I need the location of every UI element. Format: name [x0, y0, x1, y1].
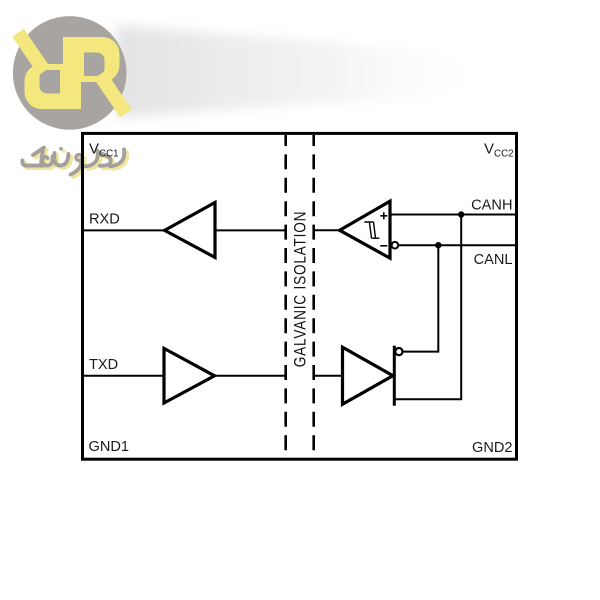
logo monogram letter R right	[63, 37, 122, 108]
receiver inverting bubble	[392, 242, 399, 249]
receiver minus input label	[380, 245, 387, 247]
driver U4 CAN output stage triangle	[343, 347, 394, 404]
IC package outline	[83, 133, 517, 459]
junction CANH	[458, 211, 464, 217]
receiver plus input label	[380, 212, 387, 219]
svg-text:CANL: CANL	[474, 252, 513, 268]
svg-text:CANH: CANH	[471, 198, 512, 214]
wire RXD barrier to receiver apex	[313, 229, 342, 231]
receiver comparator U3	[340, 201, 390, 258]
driver output bar	[393, 346, 396, 406]
buffer U2 TXD input buffer	[164, 348, 215, 403]
svg-text:RXD: RXD	[89, 212, 120, 228]
svg-text:TXD: TXD	[89, 357, 118, 373]
isolation barrier dashed line left	[284, 135, 287, 458]
logo monogram letter R left (rotated copy)	[22, 39, 81, 110]
wire CANL junction down to driver bubble output	[402, 245, 438, 351]
wire CANL	[399, 244, 516, 246]
isolation barrier dashed line right	[312, 135, 315, 458]
buffer U1 RXD output buffer	[165, 203, 215, 258]
wire TXD barrier to driver input	[313, 375, 343, 377]
wire TXD from left edge to buffer input	[84, 375, 165, 377]
svg-text:VCC2: VCC2	[484, 140, 514, 159]
wire CANH	[390, 214, 516, 216]
wire TXD buffer output to isolation barrier	[215, 375, 288, 377]
svg-text:VCC1: VCC1	[89, 140, 119, 159]
svg-text:GALVANIC ISOLATION: GALVANIC ISOLATION	[291, 211, 309, 367]
wire RXD from left edge to buffer output	[84, 229, 165, 231]
junction CANL	[435, 242, 441, 248]
logo watermark circle	[13, 16, 127, 130]
svg-text:GND1: GND1	[89, 439, 130, 455]
driver inverting bubble	[395, 348, 402, 355]
svg-text:GND2: GND2	[472, 440, 513, 456]
watermark soft band	[116, 25, 500, 118]
wire CANH junction down to driver bottom output	[395, 215, 461, 400]
receiver hysteresis symbol	[364, 222, 379, 238]
wire RXD buffer input to isolation barrier	[215, 229, 287, 231]
